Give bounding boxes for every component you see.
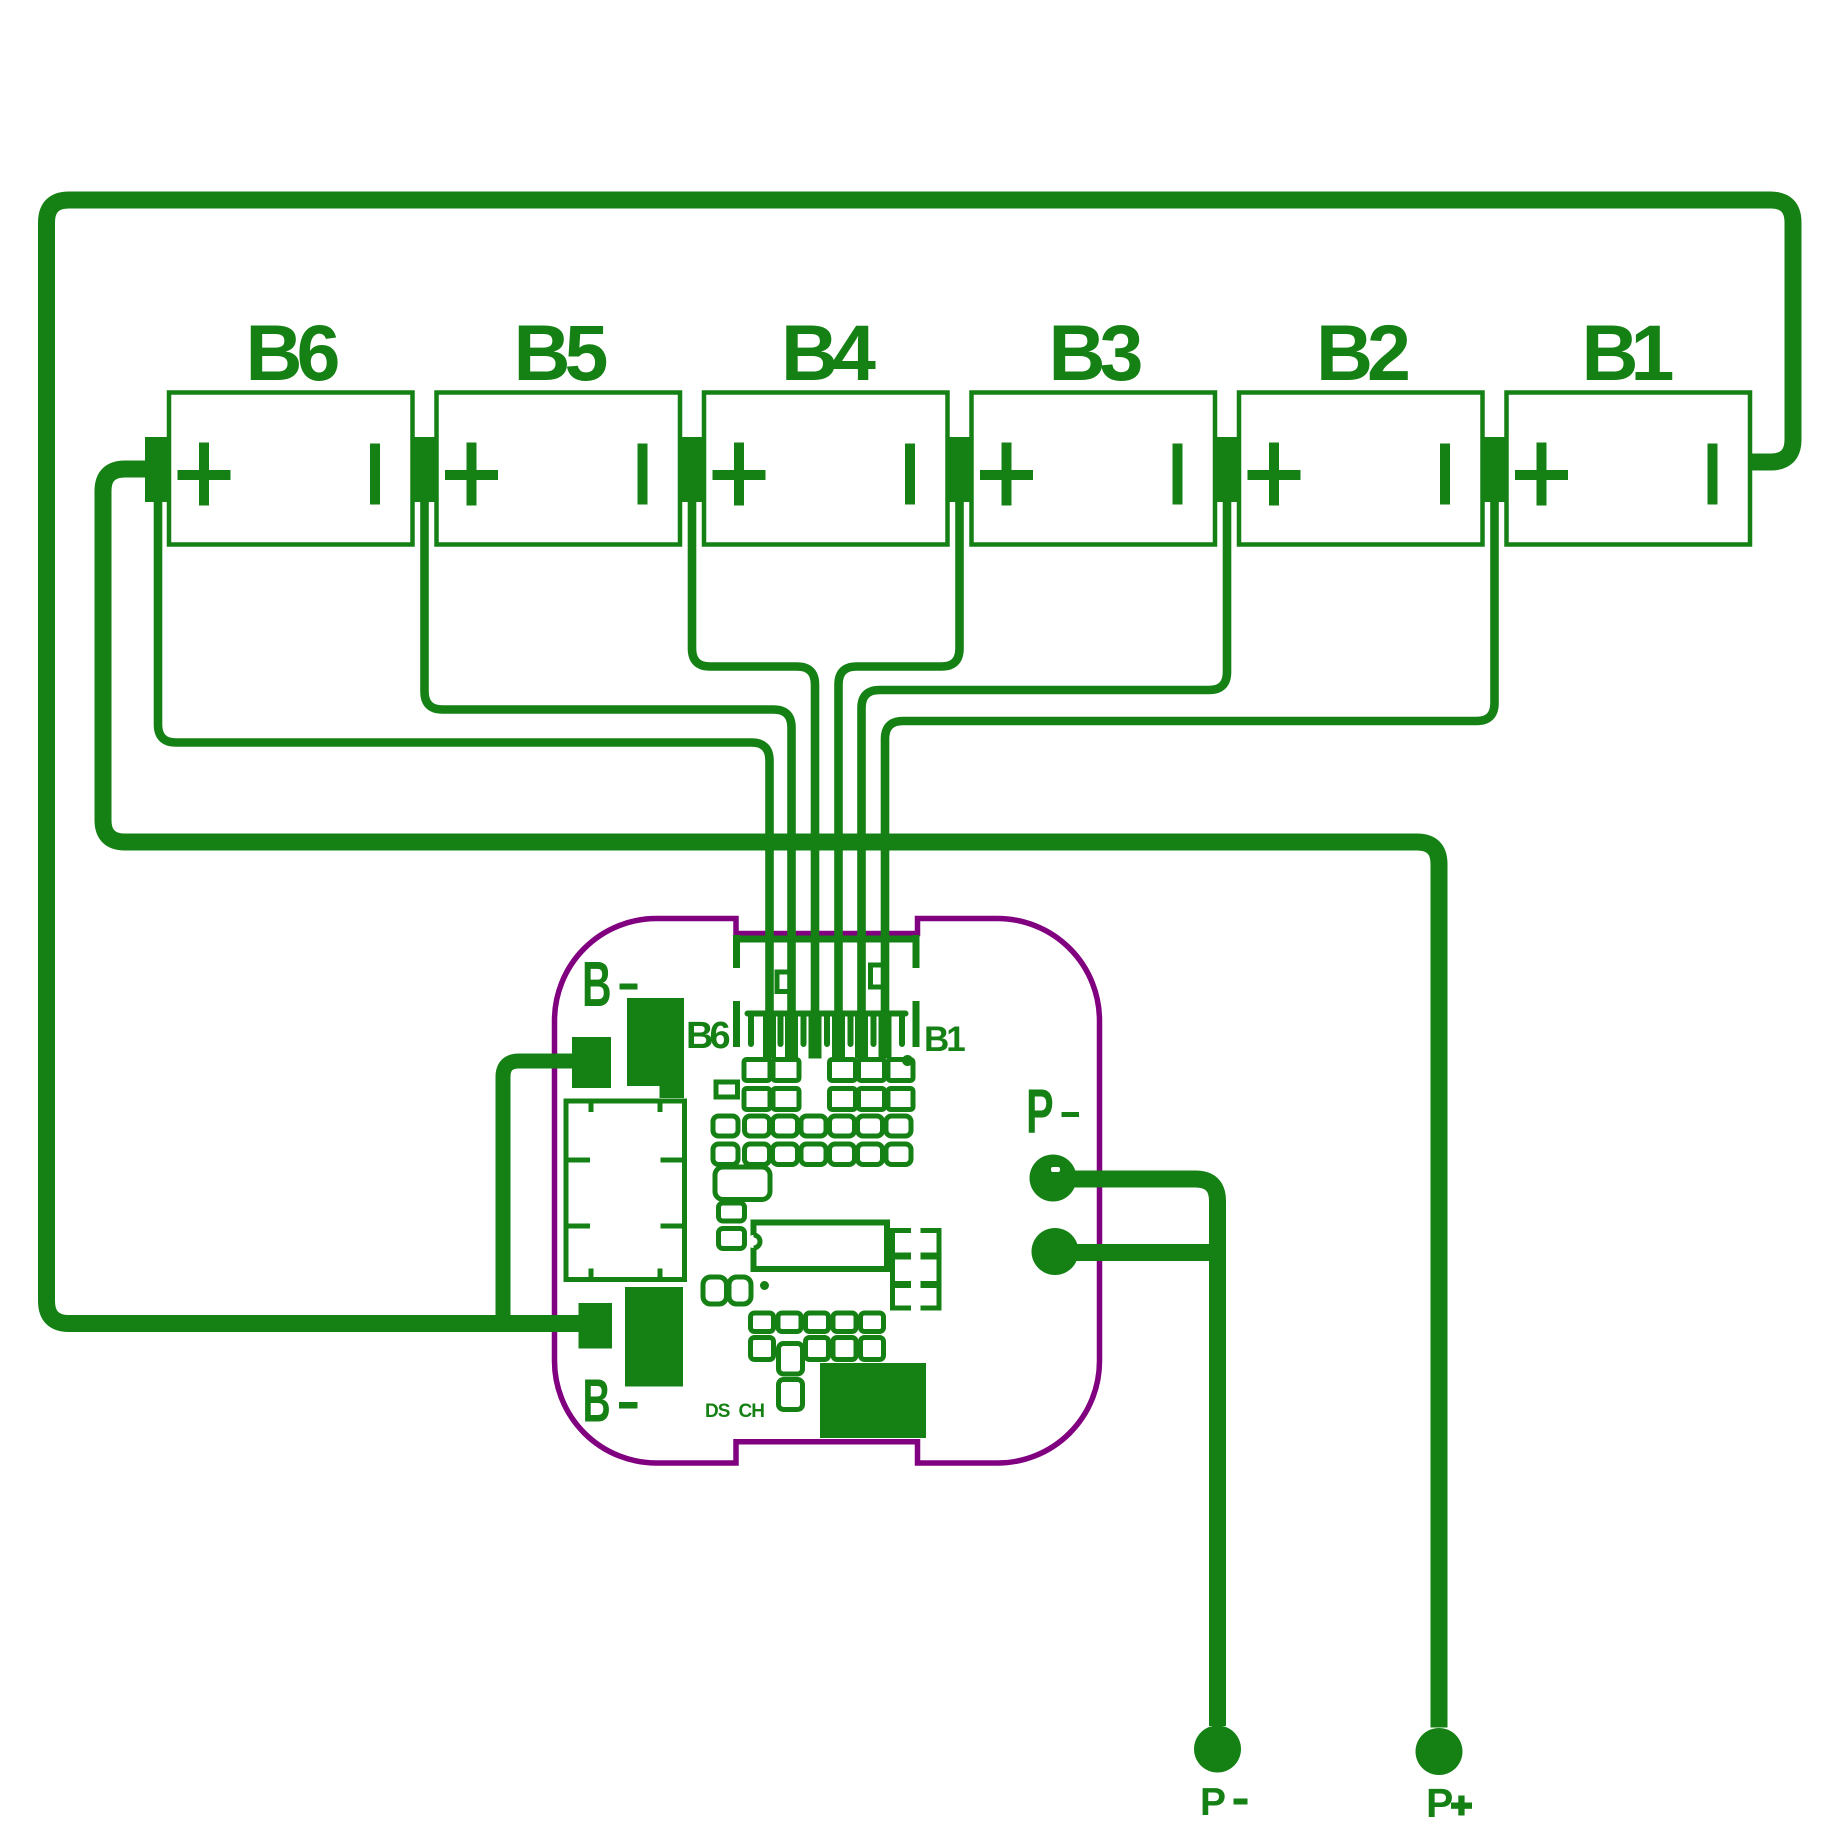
PCB outline bbox=[555, 919, 1100, 1464]
resistor row 2 bbox=[713, 1116, 911, 1165]
terminal P+ circle bbox=[1416, 1728, 1463, 1775]
svg-text:B1: B1 bbox=[1582, 308, 1673, 397]
holder outline bbox=[566, 1101, 685, 1280]
svg-text:P: P bbox=[1200, 1781, 1226, 1824]
pad B- upper bbox=[572, 1037, 611, 1088]
pad P- circle 1 bbox=[1030, 1155, 1077, 1202]
wire B- upper pad bbox=[503, 1061, 572, 1324]
svg-text:CH: CH bbox=[739, 1401, 765, 1422]
transistor Q4 3-pad right bbox=[921, 1228, 942, 1311]
connector polarity mark right bbox=[871, 965, 887, 987]
terminal tab B2/B1 bbox=[1482, 437, 1507, 502]
capacitor C1 bbox=[715, 1167, 770, 1200]
connector comb bbox=[748, 1014, 906, 1045]
wire sense B2 bbox=[862, 499, 1228, 1053]
capacitor C2 pads bbox=[719, 1203, 745, 1221]
minus bar B4 bbox=[905, 444, 915, 505]
junction dot B1 bbox=[902, 1055, 913, 1066]
svg-text:B2: B2 bbox=[1316, 308, 1408, 397]
battery labels bbox=[246, 308, 1673, 397]
terminal tab B6+ bbox=[145, 437, 170, 502]
svg-text:B6: B6 bbox=[246, 308, 339, 397]
wire P- pad2 bbox=[1055, 1244, 1226, 1261]
plus sign B2 bbox=[1248, 443, 1301, 506]
capacitor C4 pads bbox=[779, 1344, 803, 1375]
terminal tab B5/B4 bbox=[680, 437, 705, 502]
battery B3 box bbox=[972, 393, 1216, 545]
pad B- lower bbox=[579, 1303, 613, 1349]
wire sense B4 bbox=[692, 499, 815, 1053]
terminal tab B3/B2 bbox=[1215, 437, 1240, 502]
plus sign B4 bbox=[713, 443, 766, 506]
transistor Q4 3-pad left bbox=[890, 1228, 911, 1311]
wire sense B5 bbox=[425, 499, 792, 1053]
battery B4 box bbox=[704, 393, 948, 545]
minus bar B3 bbox=[1173, 444, 1183, 505]
connector J1 top bar bbox=[733, 935, 920, 1047]
resistor row 3 bbox=[751, 1313, 884, 1360]
svg-text:B4: B4 bbox=[781, 308, 876, 397]
connector pin pads bbox=[763, 1017, 892, 1059]
wire B- big loop bbox=[47, 200, 1794, 1324]
svg-text:DS: DS bbox=[705, 1401, 730, 1422]
resistor row 1 bbox=[744, 1060, 913, 1110]
svg-text:B1: B1 bbox=[924, 1020, 965, 1059]
svg-text:B6: B6 bbox=[686, 1015, 729, 1057]
component Q3 body bottom bbox=[820, 1363, 926, 1438]
minus bar B1 bbox=[1708, 444, 1718, 505]
pin1 dot U1 bbox=[760, 1281, 769, 1290]
wire sense B1 bbox=[885, 499, 1495, 1053]
connector polarity mark left bbox=[777, 972, 792, 992]
minus bar B5 bbox=[638, 444, 648, 505]
terminal tab B6/B5 bbox=[412, 437, 437, 502]
diode D1 bbox=[716, 1082, 738, 1097]
plus sign B6 bbox=[178, 443, 231, 506]
svg-text:P: P bbox=[1026, 1078, 1054, 1148]
plus sign B3 bbox=[980, 443, 1033, 506]
minus bar B2 bbox=[1440, 444, 1450, 505]
plus sign B1 bbox=[1515, 443, 1568, 506]
batteries bbox=[169, 393, 1750, 545]
svg-text:B: B bbox=[583, 1367, 611, 1435]
terminal tab B4/B3 bbox=[947, 437, 972, 502]
wire B+ from B6 plus to P+ bbox=[103, 469, 1439, 1728]
capacitor C3 pads bbox=[703, 1277, 727, 1304]
svg-text:P: P bbox=[1426, 1780, 1453, 1826]
terminal P- circle bbox=[1194, 1726, 1241, 1773]
svg-text:B5: B5 bbox=[514, 308, 607, 397]
svg-text:B: B bbox=[582, 949, 612, 1020]
wire sense B3 bbox=[839, 499, 960, 1053]
component Q1 body bbox=[627, 998, 684, 1098]
plus sign B5 bbox=[445, 443, 498, 506]
svg-text:B3: B3 bbox=[1049, 308, 1142, 397]
battery B2 box bbox=[1239, 393, 1483, 545]
pad P- circle 2 bbox=[1032, 1228, 1079, 1275]
battery B6 box bbox=[169, 393, 413, 545]
wire P- pad1 to P- terminal bbox=[1053, 1179, 1218, 1726]
wire sense B6 bbox=[158, 499, 770, 1053]
IC U1 body bbox=[754, 1223, 888, 1270]
minus bar B6 bbox=[370, 444, 380, 505]
component Q2 body bbox=[625, 1287, 683, 1387]
battery B5 box bbox=[437, 393, 681, 545]
battery B1 box bbox=[1507, 393, 1751, 545]
